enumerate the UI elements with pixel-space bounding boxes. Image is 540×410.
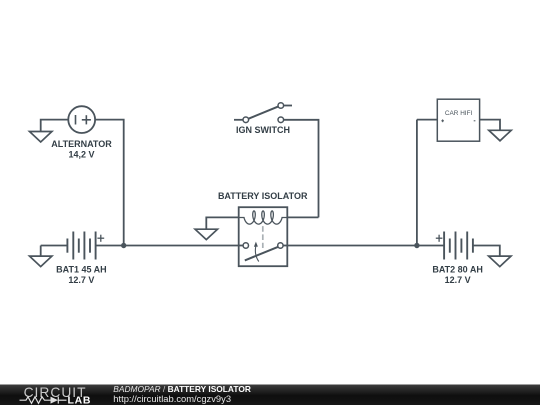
svg-text:12.7 V: 12.7 V bbox=[445, 275, 471, 285]
svg-text:BATTERY ISOLATOR: BATTERY ISOLATOR bbox=[218, 191, 308, 201]
svg-text:12.7 V: 12.7 V bbox=[68, 275, 94, 285]
svg-text:http://circuitlab.com/cgzv9y3: http://circuitlab.com/cgzv9y3 bbox=[113, 393, 231, 404]
svg-text:BAT2 80 AH: BAT2 80 AH bbox=[432, 264, 483, 274]
svg-text:IGN SWITCH: IGN SWITCH bbox=[236, 125, 290, 135]
svg-text:ALTERNATOR: ALTERNATOR bbox=[51, 139, 112, 149]
svg-text:LAB: LAB bbox=[68, 394, 92, 405]
svg-text:14,2 V: 14,2 V bbox=[68, 150, 94, 160]
svg-text:BAT1 45 AH: BAT1 45 AH bbox=[56, 264, 107, 274]
svg-text:CAR HIFI: CAR HIFI bbox=[445, 110, 473, 117]
